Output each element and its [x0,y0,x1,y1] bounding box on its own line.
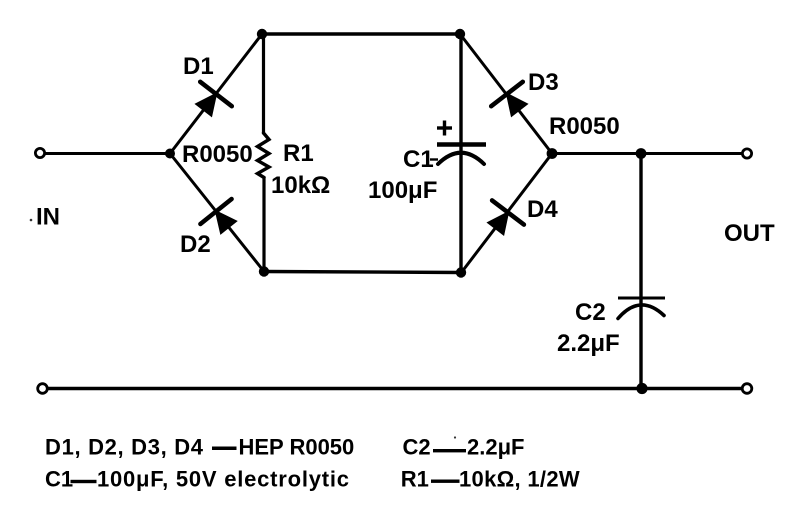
svg-text:D3: D3 [528,69,559,96]
speck above C2 dash [454,436,456,438]
svg-text:HEP R0050: HEP R0050 [239,435,355,460]
wire R1 bottom lead [262,178,265,272]
svg-text:C2: C2 [575,299,606,326]
capacitor C2 curved plate [618,305,664,319]
node output junction [636,148,647,159]
svg-text:100μF, 50V electrolytic: 100μF, 50V electrolytic [97,467,350,492]
parts list line1 dash [212,447,237,451]
parts list line2 dash [71,480,97,483]
capacitor C1 curved plate [438,153,484,164]
svg-text:R1: R1 [283,140,314,167]
wire C1 vertical [459,34,462,273]
parts list col2 line1 dash [433,449,466,452]
wire bottom rail [47,387,742,391]
svg-text:R1: R1 [401,467,429,492]
speck left of IN [30,219,33,222]
wire D2 branch [170,154,264,272]
svg-text:10kΩ, 1/2W: 10kΩ, 1/2W [459,467,580,492]
node top-right [455,29,465,39]
capacitor C1 top plate [437,142,486,147]
wire D3 branch [460,34,552,154]
svg-text:C2: C2 [403,435,431,460]
wire right output lead [552,152,742,155]
terminal bottom-left [38,384,48,394]
diode D4 [488,200,524,234]
diode D3 [491,82,527,116]
capacitor C1 plus sign [437,121,452,136]
svg-text:D2: D2 [180,231,211,258]
diode D1 [196,82,232,116]
svg-text:100μF: 100μF [368,177,437,204]
wire D4 branch [461,154,552,274]
svg-text:2.2μF: 2.2μF [557,330,620,357]
node top-left [257,29,267,39]
parts list col2 line2 dash [431,480,460,483]
resistor R1 zigzag [258,133,270,178]
wire C2 vertical [639,154,642,389]
capacitor C2 top plate [618,297,665,300]
svg-text:D1, D2, D3, D4: D1, D2, D3, D4 [45,435,204,460]
node IN junction [165,149,175,159]
terminal OUT [742,149,751,158]
wire bridge bottom rail [264,272,461,273]
node bottom-left [259,266,269,276]
node right junction [547,148,558,159]
wire D1 branch [170,34,262,154]
node bottom junction [636,383,647,394]
wire R1 top lead [262,34,265,133]
svg-text:10kΩ: 10kΩ [271,172,330,199]
wire IN lead [45,152,170,155]
svg-text:C1: C1 [403,146,434,173]
svg-text:D4: D4 [527,196,558,223]
svg-text:R0050: R0050 [549,113,620,140]
diode D2 [200,199,236,233]
terminal IN [35,148,44,157]
svg-text:2.2μF: 2.2μF [467,435,524,460]
wire top rail [262,32,460,35]
node bottom-right [456,267,466,277]
svg-text:R0050: R0050 [182,141,253,168]
svg-text:C1: C1 [45,467,73,492]
svg-text:OUT: OUT [724,220,775,247]
svg-text:IN: IN [36,204,60,231]
svg-text:D1: D1 [183,53,214,80]
terminal bottom-right [742,384,752,394]
capacitor C1 label tie dash [430,158,438,160]
